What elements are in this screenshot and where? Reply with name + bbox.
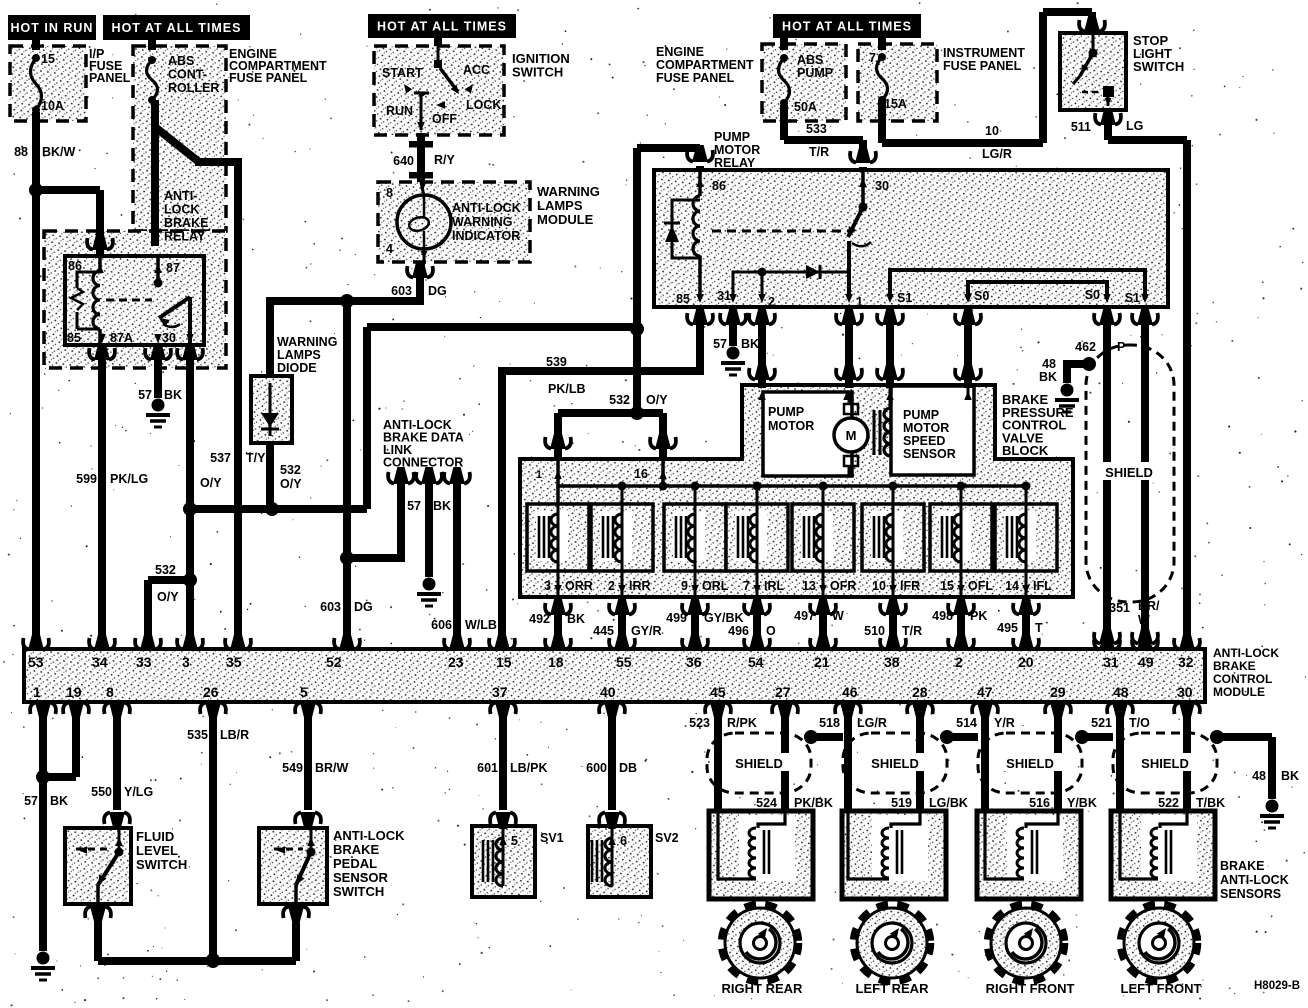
svg-text:47: 47 [977,684,993,700]
svg-text:521: 521 [1091,716,1112,730]
svg-text:ANTI-LOCK: ANTI-LOCK [1220,873,1289,887]
svg-text:532: 532 [609,393,630,407]
svg-text:50A: 50A [794,100,817,114]
svg-text:445: 445 [593,624,614,638]
svg-text:535: 535 [187,728,208,742]
svg-text:ENGINE: ENGINE [656,45,704,59]
svg-text:86: 86 [68,259,82,273]
svg-text:MOTOR: MOTOR [768,419,814,433]
svg-text:HOT AT ALL TIMES: HOT AT ALL TIMES [782,20,912,34]
svg-text:R/PK: R/PK [727,716,757,730]
svg-text:27: 27 [775,684,791,700]
svg-text:52: 52 [326,654,342,670]
svg-text:M: M [846,428,857,443]
svg-text:ABS: ABS [797,53,823,67]
svg-text:HOT AT ALL TIMES: HOT AT ALL TIMES [112,21,242,35]
svg-text:T/R: T/R [902,624,922,638]
svg-text:PEDAL: PEDAL [333,856,377,871]
svg-text:57: 57 [713,337,727,351]
svg-text:16: 16 [634,467,648,481]
svg-text:532: 532 [155,563,176,577]
svg-text:600: 600 [586,761,607,775]
svg-text:O/Y: O/Y [200,476,222,490]
svg-text:533: 533 [806,122,827,136]
svg-text:ORR: ORR [565,579,593,593]
svg-text:RELAY: RELAY [714,156,756,170]
svg-text:T/O: T/O [1129,716,1150,730]
svg-text:550: 550 [91,785,112,799]
svg-text:603: 603 [320,600,341,614]
svg-text:BR/: BR/ [1138,599,1160,613]
svg-text:57: 57 [24,794,38,808]
svg-text:T/BK: T/BK [1196,796,1225,810]
svg-text:IFR: IFR [900,579,920,593]
svg-text:510: 510 [864,624,885,638]
svg-text:45: 45 [710,684,726,700]
svg-text:640: 640 [393,154,414,168]
svg-text:O/Y: O/Y [157,590,179,604]
svg-text:514: 514 [956,716,977,730]
svg-text:LAMPS: LAMPS [537,198,583,213]
svg-text:SWITCH: SWITCH [1133,59,1184,74]
svg-text:FLUID: FLUID [136,829,174,844]
svg-text:ACC: ACC [463,63,490,77]
svg-text:SV2: SV2 [655,831,679,845]
svg-text:PANEL: PANEL [89,71,131,85]
svg-text:498: 498 [932,609,953,623]
svg-text:S1: S1 [897,291,912,305]
svg-text:21: 21 [814,654,830,670]
svg-text:DG: DG [354,600,373,614]
svg-text:10: 10 [872,579,886,593]
svg-text:R/Y: R/Y [434,153,456,167]
svg-text:601: 601 [477,761,498,775]
svg-text:ANTI-LOCK: ANTI-LOCK [1213,646,1279,660]
svg-text:GY/BK: GY/BK [704,611,744,625]
svg-text:1: 1 [33,684,41,700]
svg-text:BK: BK [1039,370,1057,384]
svg-text:SHIELD: SHIELD [1105,465,1153,480]
svg-text:46: 46 [842,684,858,700]
svg-text:351: 351 [1109,601,1130,615]
svg-text:2: 2 [608,579,615,593]
svg-text:30: 30 [1177,684,1193,700]
svg-text:28: 28 [912,684,928,700]
svg-text:549: 549 [282,761,303,775]
svg-text:H8029-B: H8029-B [1254,980,1300,992]
svg-text:SPEED: SPEED [903,434,945,448]
svg-text:SHIELD: SHIELD [735,756,783,771]
svg-text:524: 524 [756,796,777,810]
svg-text:2: 2 [955,654,963,670]
svg-text:T/R: T/R [809,145,829,159]
svg-text:539: 539 [546,355,567,369]
svg-text:ORL: ORL [702,579,729,593]
svg-text:T/Y: T/Y [246,451,266,465]
svg-text:ANTI-: ANTI- [164,189,197,203]
svg-text:S0: S0 [974,289,989,303]
svg-text:37: 37 [492,684,508,700]
svg-text:START: START [382,66,423,80]
svg-text:LOCK: LOCK [466,98,501,112]
svg-text:496: 496 [728,624,749,638]
svg-text:SENSORS: SENSORS [1220,887,1281,901]
svg-text:492: 492 [529,612,550,626]
svg-text:33: 33 [136,654,152,670]
svg-text:CONTROL: CONTROL [1213,672,1272,686]
svg-text:HOT IN RUN: HOT IN RUN [11,21,94,35]
svg-text:GY/R: GY/R [631,624,662,638]
svg-text:5: 5 [511,834,518,848]
svg-text:8: 8 [106,684,114,700]
svg-text:537: 537 [210,451,231,465]
svg-text:14: 14 [1005,579,1019,593]
svg-text:DIODE: DIODE [277,361,317,375]
svg-text:8: 8 [386,186,393,200]
svg-text:7: 7 [869,51,876,65]
svg-text:48: 48 [1252,769,1266,783]
svg-text:5: 5 [300,684,308,700]
svg-text:85: 85 [676,292,690,306]
svg-text:SHIELD: SHIELD [1006,756,1054,771]
svg-text:511: 511 [1071,120,1091,134]
svg-text:PK: PK [970,609,987,623]
svg-text:BK: BK [50,794,68,808]
svg-text:4: 4 [386,242,393,256]
svg-text:85: 85 [67,331,81,345]
svg-text:7: 7 [743,579,750,593]
svg-text:495: 495 [997,621,1018,635]
svg-text:88: 88 [14,145,28,159]
svg-text:SHIELD: SHIELD [871,756,919,771]
svg-text:LAMPS: LAMPS [277,348,321,362]
svg-text:W: W [1138,613,1150,627]
svg-text:34: 34 [92,654,108,670]
svg-text:3: 3 [182,654,190,670]
svg-text:40: 40 [600,684,616,700]
svg-text:BRAKE: BRAKE [1220,859,1264,873]
svg-text:57: 57 [138,388,152,402]
svg-text:603: 603 [391,284,412,298]
svg-text:LEFT REAR: LEFT REAR [856,981,930,996]
svg-text:OFR: OFR [830,579,856,593]
svg-text:497: 497 [794,609,815,623]
svg-text:RELAY: RELAY [164,230,206,244]
svg-text:SWITCH: SWITCH [512,65,563,80]
svg-text:32: 32 [1178,654,1194,670]
svg-text:ANTI-LOCK: ANTI-LOCK [452,201,521,215]
svg-text:LEVEL: LEVEL [136,843,178,858]
svg-text:Y/LG: Y/LG [124,785,153,799]
svg-text:SENSOR: SENSOR [333,870,389,885]
svg-text:P: P [1117,340,1125,354]
svg-text:18: 18 [548,654,564,670]
svg-text:BRAKE: BRAKE [164,216,208,230]
svg-text:S1: S1 [1125,291,1140,305]
svg-text:FUSE PANEL: FUSE PANEL [229,71,308,85]
svg-text:Y/BK: Y/BK [1067,796,1097,810]
svg-text:PUMP: PUMP [903,408,939,422]
svg-text:1: 1 [536,469,542,481]
svg-text:WARNING: WARNING [452,215,512,229]
svg-text:462: 462 [1075,340,1096,354]
svg-text:LG/R: LG/R [857,716,887,730]
svg-text:BK: BK [741,337,759,351]
svg-text:CONNECTOR: CONNECTOR [383,456,463,470]
svg-text:PK/LB: PK/LB [548,382,586,396]
svg-text:INDICATOR: INDICATOR [452,229,520,243]
svg-text:30: 30 [875,179,889,193]
svg-text:INSTRUMENT: INSTRUMENT [943,46,1025,60]
svg-text:DG: DG [428,284,447,298]
svg-text:30: 30 [162,331,176,345]
svg-text:29: 29 [1050,684,1066,700]
svg-text:599: 599 [76,472,97,486]
svg-text:35: 35 [226,654,242,670]
svg-text:FUSE PANEL: FUSE PANEL [656,71,735,85]
svg-text:PK/BK: PK/BK [794,796,833,810]
svg-text:MODULE: MODULE [1213,685,1265,699]
svg-text:606: 606 [431,618,452,632]
svg-text:9: 9 [681,579,688,593]
svg-text:ANTI-LOCK: ANTI-LOCK [333,828,405,843]
svg-text:31: 31 [1103,654,1119,670]
svg-text:PUMP: PUMP [714,130,750,144]
svg-text:522: 522 [1158,796,1179,810]
svg-text:Y/R: Y/R [994,716,1015,730]
svg-text:38: 38 [884,654,900,670]
svg-text:MODULE: MODULE [537,212,594,227]
svg-text:87: 87 [166,261,180,275]
svg-text:54: 54 [748,654,764,670]
svg-text:O/Y: O/Y [646,393,668,407]
svg-text:BR/W: BR/W [315,761,349,775]
svg-text:LG/R: LG/R [982,147,1012,161]
svg-text:DB: DB [619,761,637,775]
svg-text:WARNING: WARNING [537,184,600,199]
svg-text:IRL: IRL [764,579,785,593]
svg-text:SENSOR: SENSOR [903,447,956,461]
svg-text:LB/R: LB/R [220,728,249,742]
svg-text:49: 49 [1138,654,1154,670]
svg-text:ABS: ABS [168,54,194,68]
svg-text:516: 516 [1029,796,1050,810]
svg-text:PUMP: PUMP [768,405,804,419]
svg-text:SWITCH: SWITCH [333,884,384,899]
svg-text:2: 2 [768,295,775,309]
svg-text:S0: S0 [1085,288,1100,302]
svg-text:3: 3 [544,579,551,593]
svg-text:15: 15 [41,52,55,66]
svg-text:OFL: OFL [968,579,993,593]
svg-text:1: 1 [856,295,863,309]
svg-text:O: O [766,624,776,638]
svg-text:26: 26 [203,684,219,700]
svg-text:15: 15 [940,579,954,593]
svg-text:BK: BK [567,612,585,626]
svg-text:IRR: IRR [629,579,651,593]
svg-text:IFL: IFL [1033,579,1052,593]
svg-text:57: 57 [407,499,421,513]
svg-text:BK/W: BK/W [42,145,76,159]
svg-text:OFF: OFF [432,112,457,126]
svg-text:MOTOR: MOTOR [714,143,760,157]
svg-text:20: 20 [1018,654,1034,670]
svg-text:W: W [832,609,844,623]
svg-text:W/LB: W/LB [465,618,497,632]
svg-text:53: 53 [28,654,44,670]
svg-text:15A: 15A [884,97,907,111]
svg-text:O/Y: O/Y [280,477,302,491]
svg-text:23: 23 [448,654,464,670]
svg-text:48: 48 [1113,684,1129,700]
svg-text:BK: BK [433,499,451,513]
svg-text:RIGHT REAR: RIGHT REAR [722,981,804,996]
svg-text:WARNING: WARNING [277,335,337,349]
svg-text:532: 532 [280,463,301,477]
svg-text:PK/LG: PK/LG [110,472,148,486]
svg-text:19: 19 [66,684,82,700]
svg-text:10: 10 [985,124,999,138]
svg-text:55: 55 [616,654,632,670]
svg-text:31: 31 [717,289,731,303]
svg-text:499: 499 [666,611,687,625]
svg-text:LB/PK: LB/PK [510,761,548,775]
svg-text:LG/BK: LG/BK [929,796,968,810]
svg-text:HOT AT ALL TIMES: HOT AT ALL TIMES [377,20,507,34]
svg-text:COMPARTMENT: COMPARTMENT [656,58,754,72]
svg-text:CONT-: CONT- [168,68,207,82]
svg-text:RUN: RUN [386,104,413,118]
svg-text:LOCK: LOCK [164,203,199,217]
svg-text:LEFT FRONT: LEFT FRONT [1121,981,1202,996]
svg-text:10A: 10A [41,99,64,113]
svg-text:13: 13 [802,579,816,593]
svg-text:BK: BK [164,388,182,402]
svg-text:T: T [1035,621,1043,635]
svg-text:ROLLER: ROLLER [168,81,219,95]
svg-text:LG: LG [1126,119,1143,133]
svg-text:87A: 87A [110,331,133,345]
svg-text:86: 86 [712,179,726,193]
svg-text:518: 518 [819,716,840,730]
svg-text:519: 519 [891,796,912,810]
svg-text:FUSE PANEL: FUSE PANEL [943,59,1022,73]
svg-text:PUMP: PUMP [797,66,833,80]
svg-text:RIGHT FRONT: RIGHT FRONT [986,981,1075,996]
svg-text:SWITCH: SWITCH [136,857,187,872]
svg-text:523: 523 [689,716,710,730]
svg-text:36: 36 [686,654,702,670]
svg-text:BLOCK: BLOCK [1002,443,1049,458]
svg-text:BK: BK [1281,769,1299,783]
svg-text:SV1: SV1 [540,831,564,845]
svg-text:BRAKE: BRAKE [1213,659,1256,673]
svg-text:15: 15 [496,654,512,670]
svg-text:MOTOR: MOTOR [903,421,949,435]
svg-text:48: 48 [1042,357,1056,371]
svg-text:6: 6 [620,834,627,848]
svg-text:BRAKE: BRAKE [333,842,380,857]
svg-text:SHIELD: SHIELD [1141,756,1189,771]
